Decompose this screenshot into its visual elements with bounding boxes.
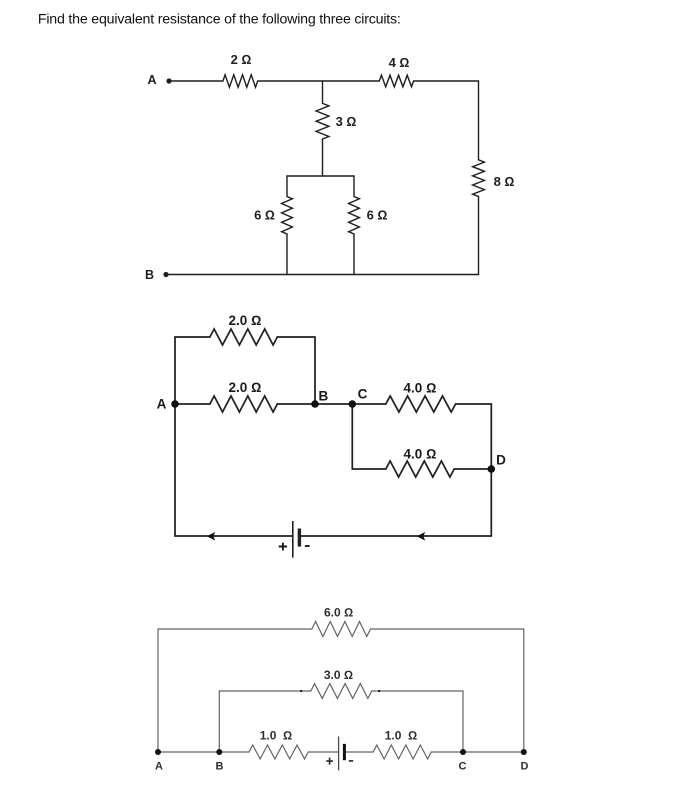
wire A to R 2ohm (171, 80, 223, 82)
resistor 4.0 ohm (top) (386, 396, 456, 412)
battery minus sign (305, 545, 310, 547)
svg-text:B: B (216, 761, 224, 773)
svg-text:3.0 Ω: 3.0 Ω (324, 668, 353, 682)
wire R 2ohm to R 4ohm (through top node) (258, 80, 380, 82)
svg-text:A: A (157, 397, 167, 412)
node A dot (circuit 2) (171, 400, 179, 408)
svg-text:2 Ω: 2 Ω (231, 52, 252, 67)
svg-text:3 Ω: 3 Ω (336, 114, 357, 129)
svg-text:4.0 Ω: 4.0 Ω (404, 380, 437, 395)
right vertical wire through D (490, 404, 492, 536)
svg-text:4 Ω: 4 Ω (389, 55, 410, 70)
node D dot (circuit 3) (521, 749, 527, 755)
node B dot (circuit 2) (311, 400, 319, 408)
resistor 6 ohm (left) (282, 197, 293, 235)
resistor 2 ohm (223, 75, 258, 87)
bottom wire A to R 1.0ohm left (158, 751, 249, 753)
svg-text:6 Ω: 6 Ω (254, 208, 275, 223)
left vertical wire A branch (174, 337, 176, 536)
node A dot (circuit 3) (155, 749, 161, 755)
current arrow right (bottom wire) (417, 532, 425, 541)
wire C to R 4.0ohm (top) (352, 403, 386, 405)
junction speck right of R 3.0ohm (378, 690, 380, 692)
battery short plate (circuit 3) (343, 744, 346, 760)
right vertical of top loop down to B (314, 337, 316, 404)
wire R 2.0ohm top to corner (277, 336, 315, 338)
bottom wire B to right corner (166, 274, 479, 276)
svg-text:Find the equivalent resistance: Find the equivalent resistance of the fo… (38, 12, 401, 28)
battery short plate (298, 529, 301, 547)
top wire to R 2.0ohm (top) (175, 336, 210, 338)
svg-text:A: A (155, 761, 163, 773)
battery plus sign (279, 543, 287, 551)
wire R 3ohm to parallel bar (322, 139, 324, 176)
svg-text:1.0 Ω: 1.0 Ω (260, 729, 293, 743)
resistor 6 ohm (right) (349, 197, 360, 235)
svg-text:6.0 Ω: 6.0 Ω (324, 606, 353, 620)
battery plus sign (circuit 3) (326, 758, 333, 765)
resistor 2.0 ohm (middle) (210, 396, 277, 412)
bottom wire left of battery (175, 535, 293, 537)
svg-text:1.0 Ω: 1.0 Ω (385, 729, 418, 743)
battery long plate (292, 521, 294, 558)
resistor 4 ohm (379, 75, 413, 87)
svg-text:8 Ω: 8 Ω (494, 174, 515, 189)
svg-text:B: B (319, 389, 329, 404)
svg-text:A: A (147, 73, 156, 87)
battery minus sign (circuit 3) (349, 760, 353, 762)
wire R 4ohm to right corner (414, 80, 479, 82)
vertical wire C up to 3.0ohm branch (462, 691, 464, 752)
svg-text:C: C (358, 387, 368, 402)
wire top node down to R 3ohm (322, 81, 324, 103)
node C dot (circuit 2) (349, 400, 357, 408)
parallel-branch bar (287, 175, 354, 177)
svg-text:C: C (459, 761, 467, 773)
node B dot (circuit 3) (216, 749, 222, 755)
wire bar to left R 6ohm (286, 176, 288, 197)
resistor 1.0 ohm (right) (373, 745, 431, 759)
battery long plate (circuit 3) (338, 737, 340, 771)
wire lower branch to R 4.0ohm (lower) (352, 468, 386, 470)
current arrow left (bottom wire) (207, 532, 215, 541)
vertical wire B up to 3.0ohm branch (218, 691, 220, 752)
wire left R 6ohm to bottom wire (286, 234, 288, 275)
wire R 1.0ohm right to C and D (431, 751, 524, 753)
wire R 4.0ohm top to right corner (456, 403, 492, 405)
left vertical wire A to top (157, 629, 159, 752)
svg-text:B: B (145, 268, 154, 282)
svg-text:4.0 Ω: 4.0 Ω (404, 447, 437, 462)
wire R 4.0ohm lower to D (454, 468, 491, 470)
resistor 1.0 ohm (left) (249, 745, 308, 759)
top wire left segment to R 6.0ohm (158, 628, 312, 630)
wire right corner down to R 8ohm (478, 81, 480, 160)
wire battery to R 1.0ohm right (344, 751, 373, 753)
node C dot (circuit 3) (460, 749, 466, 755)
resistor 2.0 ohm (top) (210, 329, 277, 345)
resistor 3.0 ohm (311, 684, 372, 699)
junction speck left of R 3.0ohm (300, 690, 302, 692)
vertical wire C down to lower branch (351, 404, 353, 469)
svg-text:6 Ω: 6 Ω (367, 208, 388, 223)
bottom wire right of battery (299, 535, 491, 537)
wire R 8ohm to bottom wire (478, 197, 480, 275)
wire R 1.0ohm left to battery (308, 751, 338, 753)
resistor 6.0 ohm (312, 622, 371, 637)
wire A to R 2.0ohm (middle) (175, 403, 210, 405)
svg-text:D: D (496, 452, 506, 467)
node B (circuit 1) (163, 272, 168, 277)
3.0ohm branch wire left (219, 690, 310, 692)
node A (circuit 1) (166, 78, 171, 83)
right vertical wire D to top (523, 629, 525, 752)
wire R 2.0ohm middle to B to C (277, 403, 352, 405)
top wire right segment (371, 628, 524, 630)
node D dot (circuit 2) (488, 465, 496, 473)
wire bar to right R 6ohm (353, 176, 355, 197)
svg-text:2.0 Ω: 2.0 Ω (229, 380, 262, 395)
resistor 8 ohm (473, 160, 485, 197)
resistor 4.0 ohm (lower) (386, 461, 454, 477)
svg-text:2.0 Ω: 2.0 Ω (229, 313, 262, 328)
svg-text:D: D (521, 761, 529, 773)
resistor 3 ohm (316, 103, 329, 139)
wire right R 6ohm to bottom wire (353, 234, 355, 275)
3.0ohm branch wire right (372, 690, 463, 692)
